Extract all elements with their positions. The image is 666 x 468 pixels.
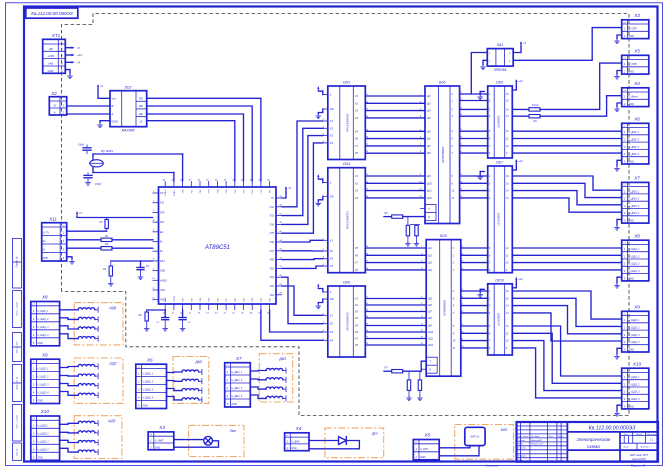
svg-text:P22: P22 [270, 297, 272, 302]
svg-text:Справ. №: Справ. № [16, 256, 19, 267]
svg-text:2: 2 [60, 54, 63, 58]
svg-text:1: 1 [624, 189, 626, 193]
actuator box ШД2 [74, 358, 123, 403]
svg-text:8: 8 [489, 152, 491, 155]
svg-text:3: 3 [33, 440, 35, 444]
svg-text:3: 3 [624, 204, 626, 208]
svg-text:5: 5 [489, 247, 491, 250]
svg-text:U_ШД2_2: U_ШД2_2 [38, 376, 50, 379]
DD9 control pins [316, 284, 334, 309]
svg-text:VSS: VSS [160, 289, 165, 292]
svg-text:Инв. № дубл.: Инв. № дубл. [16, 340, 19, 353]
svg-text:Ш3: Ш3 [428, 262, 432, 265]
svg-text:11: 11 [506, 254, 509, 257]
svg-text:Ш7: Ш7 [427, 145, 431, 148]
svg-text:Ш11: Ш11 [427, 190, 432, 193]
DD4 output pins [355, 174, 371, 272]
svg-text:U_ДМ2_2: U_ДМ2_2 [143, 381, 154, 384]
bus MCU P1x to DD3 inputs [282, 121, 323, 233]
wire X2.A to DD2 [67, 113, 110, 115]
svg-text:18: 18 [197, 313, 200, 315]
svg-text:Подп.: Подп. [549, 435, 555, 438]
motor winding ДМ3.4 [266, 395, 286, 401]
X8 ground [614, 277, 622, 288]
IC DD2 MAX485 [110, 86, 147, 133]
DD10 power +12 [512, 277, 523, 288]
DD8 left pins [420, 246, 434, 347]
svg-text:12: 12 [152, 298, 155, 300]
svg-text:X3: X3 [329, 330, 334, 334]
svg-text:9: 9 [506, 269, 508, 272]
svg-text:RE: RE [139, 104, 143, 108]
title block small texts [518, 435, 564, 462]
capacitor C5 below MCU [179, 310, 191, 326]
DA1 ground [480, 60, 487, 69]
svg-text:14: 14 [506, 108, 509, 111]
svg-text:DA1: DA1 [497, 43, 504, 47]
svg-text:X4: X4 [329, 338, 334, 342]
svg-text:2: 2 [488, 61, 491, 63]
svg-text:P26: P26 [183, 297, 185, 302]
motor winding ДМ2.2 [182, 378, 202, 384]
svg-text:Формат А3: Формат А3 [631, 463, 646, 467]
svg-text:10: 10 [506, 340, 509, 343]
svg-text:13: 13 [506, 115, 509, 118]
svg-text:Х4: Х4 [295, 426, 302, 431]
reset capacitor C3 [137, 261, 150, 275]
svg-text:P10: P10 [160, 211, 165, 214]
svg-text:B+: B+ [160, 250, 164, 253]
svg-text:3: 3 [489, 108, 491, 111]
svg-text:Х9: Х9 [41, 352, 48, 357]
svg-text:OE: OE [330, 107, 334, 111]
svg-text:4: 4 [489, 197, 491, 200]
svg-text:2: 2 [226, 378, 229, 382]
svg-text:OE: OE [330, 297, 334, 301]
svg-text:ДМ2: ДМ2 [194, 360, 202, 364]
svg-text:7: 7 [453, 312, 455, 315]
svg-text:X3: X3 [329, 257, 334, 261]
svg-text:X1: X1 [329, 119, 334, 123]
svg-text:2: 2 [137, 380, 140, 384]
connector Х4 [622, 81, 649, 107]
svg-text:1: 1 [489, 175, 491, 178]
svg-text:схема: схема [587, 444, 600, 449]
svg-text:5: 5 [227, 402, 229, 406]
svg-text:Листов 1: Листов 1 [639, 447, 651, 449]
svg-text:9: 9 [506, 347, 508, 350]
svg-text:3: 3 [624, 333, 626, 337]
sheet footnotes [486, 463, 646, 467]
bus MCU P16-P21 to DD4 inputs [282, 240, 323, 268]
svg-text:4: 4 [33, 448, 35, 452]
svg-text:2: 2 [623, 34, 626, 38]
svg-text:2: 2 [623, 70, 626, 74]
svg-text:1: 1 [33, 424, 35, 428]
strobe resistor network R5 between DD6 and DD8 [384, 212, 425, 241]
svg-text:DD4: DD4 [343, 162, 350, 166]
svg-text:C: C [330, 93, 332, 97]
svg-text:Ш9: Ш9 [428, 325, 432, 328]
svg-text:2: 2 [623, 254, 626, 258]
svg-text:22: 22 [231, 313, 235, 315]
svg-text:В: В [54, 103, 56, 107]
svg-text:7: 7 [489, 262, 491, 265]
svg-text:ШД3: ШД3 [108, 419, 115, 423]
svg-text:3: 3 [489, 190, 491, 193]
svg-text:P03: P03 [209, 189, 211, 194]
svg-text:Инв. №: Инв. № [16, 448, 19, 456]
svg-text:V8: V8 [355, 343, 359, 347]
DD6 right pins [451, 92, 465, 200]
svg-text:4: 4 [624, 340, 626, 344]
svg-text:DD3: DD3 [343, 81, 350, 85]
svg-text:U_ШД3_4: U_ШД3_4 [629, 398, 641, 401]
DD9 data input pins [322, 313, 334, 342]
svg-text:R2: R2 [105, 243, 109, 246]
svg-text:P20: P20 [270, 259, 275, 262]
svg-text:2: 2 [32, 432, 35, 436]
motor winding ШД1.4 [78, 336, 98, 342]
svg-text:Взам. инв. №: Взам. инв. № [16, 376, 19, 389]
ground at C2 [85, 180, 91, 185]
svg-text:1: 1 [63, 103, 65, 107]
DD3 data input pins [322, 119, 334, 145]
svg-text:4: 4 [624, 211, 626, 215]
connector Х6 [622, 117, 649, 165]
svg-text:19: 19 [206, 313, 209, 315]
svg-text:TX: TX [271, 197, 274, 200]
svg-text:Петров С.Н.: Петров С.Н. [531, 444, 543, 446]
connector Х9 [622, 305, 649, 353]
svg-text:1:1: 1:1 [650, 438, 654, 442]
svg-text:U_ДМ3_2: U_ДМ3_2 [629, 198, 640, 201]
svg-text:V7: V7 [355, 261, 359, 265]
svg-text:11: 11 [452, 197, 455, 200]
DD3 output pins [355, 94, 371, 155]
svg-text:V2: V2 [355, 101, 359, 105]
svg-text:INT: INT [270, 189, 272, 193]
svg-text:U_ДМ3_3: U_ДМ3_3 [629, 205, 640, 208]
svg-text:Лмп: Лмп [229, 429, 236, 433]
svg-text:U_ШД3_4: U_ШД3_4 [38, 449, 50, 452]
svg-text:R4: R4 [103, 268, 107, 271]
svg-text:GND: GND [155, 446, 161, 449]
svg-text:V4: V4 [355, 316, 359, 320]
wire X11.2 through R1 to MCU [67, 235, 153, 242]
svg-text:1: 1 [153, 191, 155, 193]
svg-text:0: 0 [453, 247, 455, 250]
bus DD9 outputs to DD8 [365, 299, 426, 346]
svg-text:Х2: Х2 [50, 91, 57, 96]
ground at DD2 [97, 123, 103, 128]
svg-text:AVSS: AVSS [159, 299, 167, 302]
svg-text:Х7: Х7 [633, 176, 640, 181]
svg-text:B-: B- [160, 241, 163, 244]
connector Х8 [31, 295, 60, 346]
svg-text:4: 4 [624, 269, 626, 273]
svg-text:V6: V6 [355, 330, 359, 334]
svg-text:3: 3 [138, 388, 140, 392]
svg-text:GND: GND [38, 457, 44, 460]
frame margin box 4 [13, 365, 22, 402]
svg-text:V4: V4 [355, 196, 359, 200]
svg-text:7: 7 [153, 249, 155, 251]
svg-text:МИУ каф. ИИТ: МИУ каф. ИИТ [630, 453, 648, 457]
svg-text:V4: V4 [355, 116, 359, 120]
svg-text:15: 15 [506, 100, 509, 103]
instrument box KIP [455, 425, 514, 460]
svg-text:4: 4 [63, 256, 65, 260]
svg-text:Х5: Х5 [423, 433, 430, 438]
wires X7 to motor DM3 [250, 371, 266, 399]
svg-text:GND: GND [629, 35, 635, 38]
svg-text:-8: -8 [77, 46, 80, 50]
svg-text:1: 1 [287, 439, 289, 443]
svg-text:ULN2003: ULN2003 [496, 115, 500, 128]
svg-text:VDD: VDD [160, 270, 165, 273]
strobe resistor network R7 below DD8 [384, 361, 426, 395]
svg-text:10: 10 [453, 340, 456, 343]
svg-text:8: 8 [153, 259, 155, 261]
svg-text:2: 2 [623, 326, 626, 330]
svg-text:X1: X1 [329, 238, 334, 242]
bus DD5 outputs to X6 [512, 131, 621, 153]
svg-text:Масса: Масса [636, 434, 643, 436]
svg-text:X4: X4 [329, 141, 334, 145]
svg-text:4: 4 [489, 115, 491, 118]
svg-text:U_ШД2_1: U_ШД2_1 [38, 368, 50, 371]
DD6 left pins [419, 94, 433, 200]
IC DD4 register [328, 162, 366, 273]
IC DD3 register [328, 81, 366, 160]
svg-text:GND: GND [629, 71, 635, 74]
svg-text:P23: P23 [270, 285, 275, 288]
svg-text:Ш4: Ш4 [427, 117, 431, 120]
svg-text:1: 1 [150, 439, 152, 443]
svg-text:11: 11 [453, 347, 456, 350]
svg-text:0: 0 [452, 93, 454, 96]
svg-text:P22: P22 [270, 276, 275, 279]
motor winding ШД1.2 [78, 316, 98, 322]
svg-text:GND: GND [38, 400, 44, 403]
connector Х9 [31, 352, 60, 403]
svg-text:9: 9 [153, 268, 155, 270]
motor winding ШД3.3 [78, 440, 98, 446]
svg-text:ШД2: ШД2 [110, 362, 117, 366]
svg-text:U_ДМ2_4: U_ДМ2_4 [143, 397, 154, 400]
svg-text:AVDD: AVDD [159, 279, 167, 282]
svg-text:V6: V6 [355, 253, 359, 257]
svg-text:Ш12: Ш12 [428, 344, 434, 347]
svg-text:10: 10 [452, 190, 455, 193]
svg-text:DD9: DD9 [343, 281, 350, 285]
motor winding ДМ3.1 [266, 368, 286, 374]
svg-text:Пров.: Пров. [518, 444, 524, 446]
svg-text:12: 12 [506, 325, 509, 328]
wire DD2.RO to MCU [147, 98, 261, 181]
svg-text:xx: xx [61, 225, 65, 227]
IC DD9 register [328, 281, 366, 358]
svg-text:23: 23 [240, 313, 244, 315]
bus DD8 outputs to DD7 lower inputs [461, 248, 488, 270]
svg-text:47ком: 47ком [532, 104, 539, 107]
svg-text:U_ЛМП: U_ЛМП [155, 440, 164, 443]
svg-text:Ш12: Ш12 [427, 197, 433, 200]
svg-text:10: 10 [152, 278, 155, 280]
svg-text:13: 13 [506, 197, 509, 200]
svg-text:4: 4 [509, 60, 511, 63]
svg-text:Кв.112.00.00.000ЭЗ: Кв.112.00.00.000ЭЗ [589, 425, 637, 431]
svg-text:C: C [330, 181, 332, 185]
X6 ground [614, 160, 622, 171]
title stamp top-left [26, 8, 78, 18]
svg-text:P34: P34 [199, 297, 202, 302]
svg-text:X1: X1 [329, 313, 334, 317]
svg-text:Х6: Х6 [146, 357, 153, 362]
svg-text:2: 2 [623, 102, 626, 106]
svg-text:U_ШД1_3: U_ШД1_3 [629, 263, 641, 266]
svg-text:R9: R9 [533, 120, 537, 123]
svg-text:P24: P24 [270, 294, 275, 297]
svg-text:P23: P23 [261, 297, 263, 302]
svg-text:ШД1: ШД1 [110, 306, 117, 310]
svg-text:U_ШД1_4: U_ШД1_4 [38, 334, 50, 337]
connector XT1 [43, 33, 66, 74]
capacitor C2 [84, 173, 101, 187]
svg-text:Копировал: Копировал [486, 463, 499, 467]
frame margin box 1 [13, 239, 22, 289]
DD6 strobe pins T S [420, 205, 436, 221]
connector Х6 [136, 357, 167, 408]
svg-text:4: 4 [33, 333, 35, 337]
svg-text:P13: P13 [270, 215, 275, 218]
svg-text:RO: RO [139, 97, 144, 101]
svg-text:15: 15 [506, 297, 509, 300]
svg-text:4: 4 [138, 396, 140, 400]
svg-text:5: 5 [33, 456, 35, 460]
connector Х5 [622, 49, 649, 75]
lamp HL1 [204, 436, 213, 445]
svg-text:Х8: Х8 [41, 295, 48, 300]
svg-text:0,1: 0,1 [156, 322, 160, 324]
svg-text:+5: +5 [79, 211, 83, 215]
svg-text:U_ШД3_1: U_ШД3_1 [629, 376, 641, 379]
bus DD4 outputs to DD6 and DD8 [365, 176, 426, 270]
svg-text:U_ШД3_3: U_ШД3_3 [629, 391, 641, 394]
dashed device boundary [62, 14, 630, 416]
connector X2 [49, 91, 66, 115]
svg-text:A: A [111, 112, 114, 116]
svg-text:1: 1 [452, 100, 454, 103]
DD2 GND wire [100, 121, 110, 123]
svg-text:3: 3 [453, 269, 455, 272]
svg-text:6: 6 [489, 254, 491, 257]
svg-text:11: 11 [152, 288, 155, 290]
svg-text:+12: +12 [518, 79, 523, 83]
svg-text:2: 2 [62, 111, 65, 115]
wire X11.1 to R3 [67, 230, 107, 232]
svg-text:4: 4 [624, 397, 626, 401]
svg-text:Х8: Х8 [633, 233, 640, 238]
svg-text:Ш10: Ш10 [428, 331, 434, 334]
MCU left pins [152, 191, 167, 302]
svg-text:P30: P30 [235, 297, 237, 302]
frame margin box 3 [13, 333, 22, 362]
svg-text:КР580ВВ55: КР580ВВ55 [441, 146, 445, 162]
svg-text:1: 1 [624, 318, 626, 322]
svg-text:T: T [429, 360, 431, 364]
svg-text:40: 40 [163, 178, 166, 181]
XT1 output arrows [65, 46, 82, 65]
svg-text:2: 2 [623, 138, 626, 142]
wires X3 to lamp [174, 440, 219, 448]
svg-text:P05: P05 [226, 189, 228, 194]
svg-text:Ш9: Ш9 [427, 175, 431, 178]
svg-text:Дио: Дио [371, 432, 378, 436]
svg-text:28: 28 [278, 293, 282, 295]
svg-text:U_ШД2_2: U_ШД2_2 [629, 327, 641, 330]
svg-text:-8В: -8В [48, 47, 52, 51]
svg-text:5: 5 [624, 347, 626, 351]
svg-text:U_ДМ2_1: U_ДМ2_1 [143, 373, 154, 376]
svg-text:DD7: DD7 [496, 161, 503, 165]
svg-text:GND: GND [291, 447, 297, 450]
svg-text:2: 2 [286, 446, 289, 450]
svg-text:9: 9 [452, 182, 454, 185]
svg-text:V2: V2 [355, 181, 359, 185]
svg-text:DE: DE [139, 112, 143, 116]
svg-text:+5: +5 [523, 41, 527, 45]
DD10 output pins [506, 290, 509, 350]
svg-text:1: 1 [624, 375, 626, 379]
ground at R4 [108, 281, 114, 286]
reset resistor R4 [103, 261, 153, 281]
svg-text:U_ШД2_4: U_ШД2_4 [629, 341, 641, 344]
bus DD3 outputs to DD6 [365, 96, 425, 153]
svg-text:U_Вент: U_Вент [629, 96, 638, 99]
svg-text:КР1533ИР23: КР1533ИР23 [345, 114, 349, 132]
svg-text:1: 1 [33, 367, 35, 371]
DD7 output pins [506, 175, 509, 272]
svg-text:V3: V3 [355, 189, 359, 193]
svg-text:GND: GND [629, 160, 635, 163]
svg-text:4: 4 [33, 391, 35, 395]
svg-text:GND: GND [629, 405, 635, 408]
svg-text:V6: V6 [355, 137, 359, 141]
DD10 input pins [488, 290, 491, 350]
svg-text:КРЕН5А: КРЕН5А [494, 68, 506, 72]
svg-text:С5: С5 [188, 322, 192, 324]
svg-text:2: 2 [62, 239, 65, 243]
wires X8 to stepper SHD1 [60, 310, 79, 339]
svg-text:V3: V3 [355, 109, 359, 113]
IC DD5 ULN2003 [488, 81, 513, 159]
DD5 power +12 [512, 79, 523, 90]
svg-text:D_TX: D_TX [43, 232, 50, 235]
motor winding ШД3.2 [78, 430, 98, 436]
svg-text:Утв.: Утв. [518, 460, 523, 462]
svg-text:Ш11: Ш11 [428, 338, 433, 341]
svg-text:U_ОПР: U_ОПР [629, 28, 638, 31]
svg-text:5: 5 [33, 399, 35, 403]
IC DD7 ULN2003 [488, 161, 513, 273]
svg-text:GND: GND [143, 405, 149, 408]
bus DD8 outputs to DD10 [461, 291, 488, 348]
svg-text:DD8: DD8 [440, 234, 447, 238]
svg-text:Ш7: Ш7 [428, 311, 432, 314]
svg-text:Т.контр.: Т.контр. [518, 448, 527, 450]
